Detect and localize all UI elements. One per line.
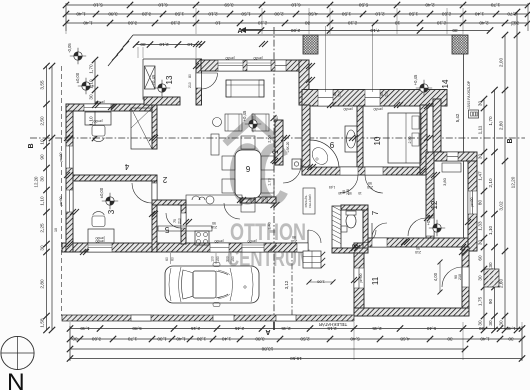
terrace corner post <box>452 35 468 54</box>
axis tick pair <box>460 244 466 250</box>
door arc corridor-garage <box>372 223 387 238</box>
axis tick pair <box>306 77 312 83</box>
svg-text:30: 30 <box>305 21 311 26</box>
entry door arc <box>202 73 218 89</box>
svg-text:30: 30 <box>89 94 94 100</box>
outside steps right <box>484 269 499 287</box>
svg-text:TELEKHATÁR: TELEKHATÁR <box>319 322 347 327</box>
fence front <box>62 315 354 321</box>
wall corner entry-right <box>299 60 309 105</box>
wall garage bottom <box>354 308 469 316</box>
svg-text:1,40: 1,40 <box>475 12 485 17</box>
wall room5 top <box>152 200 186 205</box>
axis tick pair <box>417 168 423 174</box>
entry porch outline <box>143 58 196 60</box>
svg-text:30: 30 <box>508 337 514 342</box>
svg-text:90: 90 <box>40 154 45 160</box>
svg-text:30: 30 <box>447 337 453 342</box>
car dim stub a <box>170 253 172 264</box>
wall entry top <box>201 60 309 71</box>
svg-text:3,60: 3,60 <box>92 337 102 342</box>
gate gap a <box>131 315 151 321</box>
door arc room4 <box>132 183 152 203</box>
guide line <box>69 322 71 360</box>
bed room10 <box>388 113 421 163</box>
column 15x15 <box>469 110 479 118</box>
svg-text:2,50: 2,50 <box>40 116 45 126</box>
svg-text:7,10: 7,10 <box>370 28 380 33</box>
svg-text:2,10: 2,10 <box>159 42 169 47</box>
svg-text:210: 210 <box>367 185 373 189</box>
svg-text:3,02: 3,02 <box>499 201 504 211</box>
wall hall vertical <box>152 181 157 252</box>
svg-text:1,40: 1,40 <box>176 337 186 342</box>
axis tick pair <box>281 135 287 141</box>
compass cross <box>17 336 19 370</box>
padlas feljaro box <box>303 188 315 214</box>
cabinet room12 <box>442 163 461 172</box>
svg-text:30: 30 <box>478 275 483 281</box>
svg-text:1,73: 1,73 <box>268 178 272 185</box>
bottom dim row 1 <box>70 328 522 330</box>
svg-text:2,80: 2,80 <box>40 279 45 289</box>
guide line <box>446 8 448 34</box>
window topleft <box>84 104 111 111</box>
window pm30 b <box>247 60 271 71</box>
svg-text:2,25: 2,25 <box>40 223 45 233</box>
svg-text:1,75: 1,75 <box>478 297 483 307</box>
door gap room4 <box>152 183 157 203</box>
svg-text:1,40: 1,40 <box>83 21 93 26</box>
axis tick pair <box>459 249 465 255</box>
axis tick pair <box>64 135 70 141</box>
axis tick pair <box>394 102 400 108</box>
svg-text:1,40: 1,40 <box>480 337 490 342</box>
front door gap <box>297 243 308 252</box>
svg-text:1,50: 1,50 <box>241 12 251 17</box>
axis tick pair <box>193 41 199 47</box>
shower room9 <box>310 140 339 167</box>
svg-text:10: 10 <box>54 228 58 232</box>
svg-text:1,10: 1,10 <box>89 116 94 126</box>
wc sink <box>341 226 347 232</box>
svg-text:1,00: 1,00 <box>316 280 325 285</box>
svg-text:+0,45: +0,45 <box>413 74 418 85</box>
svg-text:pm90: pm90 <box>248 239 257 243</box>
svg-text:210: 210 <box>338 91 342 97</box>
wall 9/10 bottom <box>302 167 427 175</box>
svg-text:+0,45: +0,45 <box>242 110 247 121</box>
svg-text:12: 12 <box>430 200 439 209</box>
door gap 10 <box>365 167 383 175</box>
svg-text:5,50: 5,50 <box>359 3 369 8</box>
axis tick pair <box>351 277 357 283</box>
svg-text:30: 30 <box>478 154 483 160</box>
wardrobe room1 <box>131 108 152 149</box>
svg-text:30: 30 <box>478 101 483 107</box>
svg-text:2,80: 2,80 <box>499 121 504 131</box>
svg-text:pm90: pm90 <box>215 239 224 243</box>
svg-text:pm90: pm90 <box>59 153 63 162</box>
svg-text:pm90: pm90 <box>470 198 474 207</box>
axis tick pair <box>424 135 430 141</box>
svg-text:9: 9 <box>329 140 334 149</box>
bottom dim row 3 <box>70 348 465 350</box>
window front b <box>210 243 229 252</box>
window pm30 c <box>275 60 286 71</box>
axis tick pair <box>70 209 76 215</box>
svg-text:2: 2 <box>162 175 167 184</box>
svg-text:pm30: pm30 <box>374 107 383 111</box>
svg-text:30: 30 <box>499 320 504 326</box>
axis tick pair <box>272 158 278 164</box>
svg-text:210: 210 <box>385 91 389 97</box>
svg-text:2,15: 2,15 <box>191 326 201 331</box>
closet LSK <box>292 159 301 169</box>
svg-text:5,42: 5,42 <box>455 113 460 122</box>
compass circle <box>1 336 34 369</box>
wall jog 14-12 <box>433 152 477 161</box>
svg-text:7: 7 <box>371 210 380 215</box>
car <box>165 263 259 307</box>
coffee table <box>213 118 222 127</box>
svg-text:pm90: pm90 <box>96 100 105 104</box>
axis tick pair <box>424 103 430 109</box>
svg-text:5,80: 5,80 <box>132 326 142 331</box>
bottom dim row 2 <box>70 338 522 340</box>
svg-text:30: 30 <box>478 320 483 326</box>
axis tick pair <box>431 172 437 178</box>
svg-text:2,00: 2,00 <box>291 28 301 33</box>
svg-text:1,40: 1,40 <box>222 337 232 342</box>
svg-text:1,70: 1,70 <box>89 64 94 74</box>
svg-text:100: 100 <box>211 256 215 262</box>
svg-text:1,50: 1,50 <box>342 12 352 17</box>
svg-text:1,65: 1,65 <box>329 185 335 189</box>
car dim stub b <box>215 253 217 264</box>
svg-text:90: 90 <box>488 299 493 305</box>
svg-text:30: 30 <box>40 245 45 251</box>
door gap corridor-garage <box>372 238 387 247</box>
wall 10 right <box>420 105 427 175</box>
svg-text:1,58: 1,58 <box>40 318 45 328</box>
left mini col porch <box>94 60 96 138</box>
window pm30 a <box>218 60 243 71</box>
car dim stub c <box>230 253 232 264</box>
wc room walls <box>341 205 368 210</box>
armchair b <box>252 114 269 131</box>
right dim col 1 <box>483 99 485 330</box>
armchair a <box>225 114 242 131</box>
svg-text:2,10: 2,10 <box>375 12 385 17</box>
svg-text:1,10: 1,10 <box>488 226 493 236</box>
svg-text:150: 150 <box>216 256 220 262</box>
guide line <box>65 8 67 34</box>
entry closet <box>145 66 156 89</box>
svg-text:210: 210 <box>265 197 269 203</box>
svg-text:pm90: pm90 <box>359 274 363 283</box>
svg-text:±0,00: ±0,00 <box>99 187 104 198</box>
svg-text:+0,45: +0,45 <box>151 74 156 85</box>
svg-text:2,90: 2,90 <box>408 137 412 144</box>
svg-text:80: 80 <box>333 92 337 96</box>
svg-text:30: 30 <box>72 337 78 342</box>
svg-text:6: 6 <box>245 164 250 173</box>
axis tick pair <box>351 245 357 251</box>
garage door gap <box>462 267 469 287</box>
svg-text:3: 3 <box>107 209 116 214</box>
front door arc <box>308 230 321 243</box>
svg-text:11: 11 <box>371 276 380 285</box>
kitchen counter <box>186 195 242 205</box>
elev -0.05 <box>74 52 82 60</box>
watermark OC logo C <box>261 148 284 201</box>
svg-text:90: 90 <box>368 181 372 185</box>
top dim row 1 <box>66 4 528 6</box>
wall 4-3 horizontal <box>73 175 157 181</box>
wall corr-12 <box>426 152 434 238</box>
svg-text:30: 30 <box>140 42 146 47</box>
roof overhang line top <box>133 34 463 36</box>
wc door arc <box>363 230 376 243</box>
svg-text:10: 10 <box>40 139 45 145</box>
door gap 9 <box>340 167 358 175</box>
porch diagonal <box>108 35 133 66</box>
window pm90 right <box>468 191 477 214</box>
svg-text:30: 30 <box>488 320 493 326</box>
svg-text:2,10: 2,10 <box>171 21 181 26</box>
door arc 9 <box>340 175 358 193</box>
guide line <box>261 8 263 34</box>
wall left <box>66 104 73 252</box>
watermark OC logo roof <box>225 118 281 144</box>
chair d5 <box>241 136 255 149</box>
svg-text:4,00: 4,00 <box>433 272 438 281</box>
elev +0.45 living <box>249 120 257 128</box>
window front a <box>88 243 112 252</box>
section line B-B horizontal <box>30 137 525 139</box>
svg-text:6,10: 6,10 <box>158 3 168 8</box>
svg-text:1,11: 1,11 <box>478 125 483 134</box>
chair d6 <box>241 199 255 212</box>
svg-text:1,70: 1,70 <box>488 116 493 126</box>
svg-text:4,50: 4,50 <box>308 12 318 17</box>
door arc room5 <box>166 213 181 228</box>
wall 12-garage <box>364 238 468 247</box>
svg-text:2,50: 2,50 <box>268 135 272 142</box>
svg-text:300: 300 <box>226 256 230 262</box>
svg-text:LSK-20: LSK-20 <box>286 141 290 152</box>
svg-text:2,45: 2,45 <box>235 326 245 331</box>
svg-text:2,45: 2,45 <box>372 326 382 331</box>
svg-text:3,60: 3,60 <box>128 21 138 26</box>
svg-text:3,80: 3,80 <box>255 337 265 342</box>
svg-text:FELJÁRÓ: FELJÁRÓ <box>307 194 312 208</box>
garage door arc <box>442 267 462 287</box>
svg-text:60: 60 <box>165 257 169 261</box>
wall entry-living <box>144 97 180 105</box>
svg-text:2,00: 2,00 <box>274 12 284 17</box>
window left b <box>66 190 73 212</box>
wall living-right <box>275 120 283 165</box>
svg-text:1,40: 1,40 <box>268 222 272 229</box>
svg-text:4,68: 4,68 <box>400 337 410 342</box>
wall garage left <box>354 243 364 316</box>
axis tick pair <box>92 102 98 108</box>
porch diagonal ticks <box>112 55 118 61</box>
svg-text:210: 210 <box>253 197 257 203</box>
window pm90 garage <box>354 268 364 288</box>
svg-text:90: 90 <box>292 235 296 239</box>
right dim col 2 <box>494 90 496 330</box>
door arc 12 <box>408 218 426 236</box>
axis tick pair <box>465 219 471 225</box>
wall top-left wing <box>66 104 156 111</box>
top dim block connectors <box>65 3 67 31</box>
svg-text:12,20: 12,20 <box>511 176 516 188</box>
svg-text:1: 1 <box>271 149 280 154</box>
axis tick pair <box>64 172 70 178</box>
svg-text:1,40: 1,40 <box>76 12 86 17</box>
svg-text:90: 90 <box>416 246 420 250</box>
entry steps <box>303 251 321 268</box>
garage dim 4.00 <box>439 262 441 292</box>
top dim row 3 <box>66 22 528 24</box>
svg-text:13,80: 13,80 <box>261 347 273 352</box>
right dim col 4 <box>516 12 518 330</box>
door arc kitchen <box>224 203 240 219</box>
wall right upper <box>433 99 441 152</box>
axis tick pair <box>327 102 333 108</box>
bottom dim row 4 <box>70 358 522 360</box>
wall room9 left <box>302 105 310 167</box>
chair room3 <box>92 216 105 227</box>
axis tick pair <box>259 41 265 47</box>
svg-text:pm30: pm30 <box>254 56 263 60</box>
svg-text:6,10: 6,10 <box>291 3 301 8</box>
svg-text:210: 210 <box>415 250 421 254</box>
svg-text:10: 10 <box>395 21 401 26</box>
svg-text:4: 4 <box>124 162 129 171</box>
axis tick pair <box>193 63 199 69</box>
svg-text:1,70: 1,70 <box>491 3 501 8</box>
stove <box>195 231 209 245</box>
svg-text:19,50: 19,50 <box>290 356 302 361</box>
terrace guide lines <box>325 26 327 92</box>
desk room4 <box>85 112 111 125</box>
chair d4 <box>261 179 274 193</box>
svg-text:210: 210 <box>188 82 192 88</box>
svg-text:B: B <box>507 138 514 143</box>
svg-text:A: A <box>237 28 242 35</box>
axis tick pair <box>424 215 430 221</box>
svg-text:30: 30 <box>40 176 45 182</box>
guide line <box>353 322 355 360</box>
svg-text:pm90: pm90 <box>59 197 63 206</box>
svg-text:210: 210 <box>178 218 182 224</box>
axis tick pair <box>183 219 189 225</box>
axis tick pair <box>237 197 243 203</box>
svg-text:2,10: 2,10 <box>488 178 493 188</box>
chimney block <box>303 35 318 54</box>
axis tick pair <box>349 135 355 141</box>
svg-text:95: 95 <box>348 191 352 195</box>
svg-text:13: 13 <box>165 75 174 84</box>
wall kitchen stub <box>240 197 276 203</box>
window left a <box>66 146 73 168</box>
entry door gap <box>196 73 202 88</box>
wall right wing top <box>302 90 447 107</box>
axis tick pair <box>149 211 155 217</box>
window front c <box>242 243 264 252</box>
svg-text:12,20: 12,20 <box>34 176 39 188</box>
section line 3.12 vertical <box>291 252 293 318</box>
svg-text:pm30: pm30 <box>226 56 235 60</box>
svg-text:2,00: 2,00 <box>499 58 504 68</box>
chair d1 <box>222 156 235 170</box>
wall 4-1 vertical <box>152 104 157 149</box>
top dim row 2 <box>66 13 528 15</box>
elev +0.45 entry <box>158 84 166 92</box>
svg-text:14: 14 <box>441 79 450 88</box>
axis tick pair <box>80 249 86 255</box>
door gap 12 <box>426 218 434 236</box>
svg-text:1,30: 1,30 <box>157 337 167 342</box>
axis tick pair <box>401 239 407 245</box>
svg-text:1,50: 1,50 <box>175 12 185 17</box>
guide line <box>329 8 331 34</box>
window pm30 e <box>365 90 380 107</box>
guide line <box>308 8 310 34</box>
right dim col 3 <box>504 35 506 330</box>
svg-text:1,47: 1,47 <box>478 171 483 181</box>
svg-text:1,33: 1,33 <box>478 221 483 231</box>
axis tick pair <box>307 164 313 170</box>
svg-text:pm90: pm90 <box>96 239 105 243</box>
svg-text:80: 80 <box>380 92 384 96</box>
svg-text:±0,00: ±0,00 <box>75 72 80 83</box>
svg-text:75: 75 <box>173 219 177 223</box>
svg-text:N: N <box>7 369 25 390</box>
sink room9 <box>345 126 357 152</box>
svg-text:1,10: 1,10 <box>40 196 45 206</box>
axis dim ticks x273 <box>271 115 277 121</box>
svg-text:1,30: 1,30 <box>197 337 207 342</box>
svg-text:150: 150 <box>231 256 235 262</box>
kitchen sink <box>206 196 214 204</box>
chair d2 <box>222 179 235 193</box>
svg-text:10: 10 <box>187 42 193 47</box>
svg-text:2,10: 2,10 <box>437 21 447 26</box>
svg-text:10: 10 <box>215 21 221 26</box>
svg-text:2,10: 2,10 <box>208 12 218 17</box>
section line A-A vertical <box>273 27 275 322</box>
elev +0.45 terrace14 <box>420 84 428 92</box>
svg-text:30: 30 <box>478 240 483 246</box>
svg-text:A: A <box>265 328 270 335</box>
svg-text:60: 60 <box>171 257 175 261</box>
guide line <box>462 8 464 34</box>
svg-text:2,40: 2,40 <box>479 21 489 26</box>
axis tick pair <box>149 135 155 141</box>
elev +-0.00 room3 <box>106 197 114 205</box>
elev +-0.00 porch <box>82 82 90 90</box>
elev +0.45 room12 <box>433 224 441 232</box>
door gap living <box>275 164 283 166</box>
svg-text:1,50: 1,50 <box>409 12 419 17</box>
svg-text:2,10: 2,10 <box>258 21 268 26</box>
gate gap b <box>213 315 234 321</box>
